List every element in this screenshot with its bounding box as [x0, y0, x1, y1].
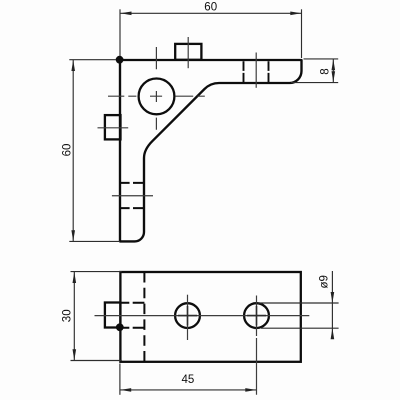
wire: plan hidden leg edge	[143, 272, 145, 362]
dimension 60 left: dimension line	[72, 60, 74, 241]
wire: top tab centerline	[187, 37, 189, 68]
wire: flange hidden hole edge right	[268, 61, 270, 82]
hole H1: plan hole left	[175, 303, 200, 328]
wire: circle vertical centerline	[155, 47, 157, 130]
wire: plan horizontal centerline	[95, 315, 310, 317]
wire: hole2 vertical center dash thick	[256, 306, 258, 326]
svg-text:8: 8	[320, 68, 332, 74]
wire: plan tab rectangle	[105, 303, 121, 328]
dimension dia9: extension lines	[258, 302, 339, 304]
dimension 45: extension line left	[119, 364, 121, 395]
wire: side tab centerline	[98, 127, 129, 129]
wire: top tab rectangle	[175, 44, 201, 60]
wire: hole1 center dash thick	[178, 315, 197, 317]
dimension 8: extension lines	[304, 58, 339, 60]
wire: plan-view plate rectangle	[120, 272, 300, 362]
svg-text:60: 60	[204, 2, 217, 14]
node C: plan corner dot	[116, 323, 124, 331]
wire: flange hidden hole edge left	[243, 61, 245, 82]
dimension 30: dimension line	[73, 272, 75, 360]
dimension 60 top: extension lines	[119, 9, 121, 56]
wire: plan hole2 vertical centerline / 45 extension	[256, 296, 258, 395]
node B: corner hole circle	[139, 79, 175, 115]
svg-text:30: 30	[61, 309, 73, 322]
wire: flange hole centerline	[255, 53, 257, 88]
node A: side-view corner dot	[116, 56, 124, 64]
svg-text:45: 45	[182, 374, 195, 386]
dimension 30: extension lines	[71, 271, 122, 273]
wire: plan hidden slot top	[121, 302, 145, 304]
wire: side-view bracket outline	[120, 60, 302, 241]
wire: leg hidden hole edge bottom	[120, 207, 144, 209]
dimension 60 top: dimension line	[121, 12, 302, 14]
wire: hole2 center dash thick	[247, 315, 266, 317]
wire: leg hole centerline	[112, 195, 153, 197]
dimension 45: dimension line	[120, 389, 256, 391]
wire: side tab rectangle	[105, 115, 121, 139]
wire: leg hidden hole edge top	[120, 182, 144, 184]
svg-text:ø9: ø9	[319, 275, 331, 288]
hole H2: plan hole right	[244, 303, 269, 328]
svg-text:60: 60	[61, 144, 73, 157]
dimension 60 left: extension lines	[69, 59, 116, 61]
wire: hole1 vertical center dash thick	[187, 306, 189, 326]
wire: plan hidden slot bottom	[121, 327, 145, 329]
wire: plan hole1 vertical centerline	[187, 295, 189, 340]
dimension 8: dimension line	[332, 59, 334, 82]
wire: circle horizontal centerline	[108, 95, 205, 97]
dimension dia9: dimension line	[331, 271, 333, 338]
